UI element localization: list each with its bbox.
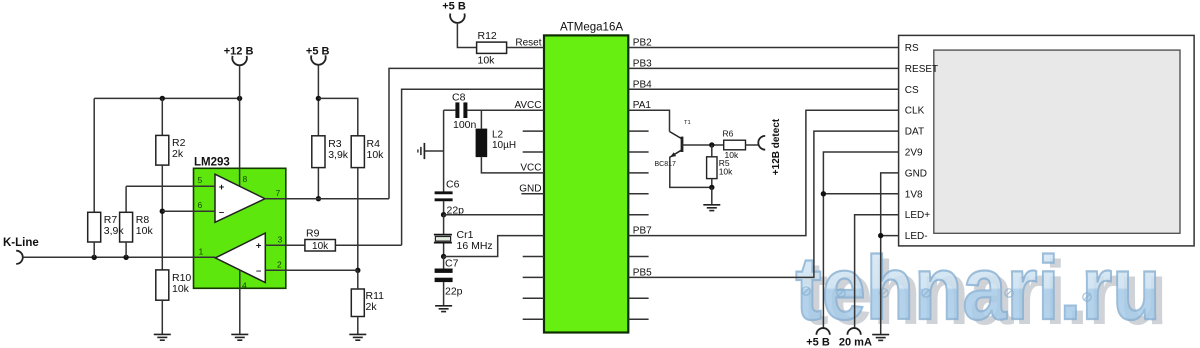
svg-text:+5 В: +5 В bbox=[442, 1, 466, 13]
stub right row193 bbox=[628, 193, 648, 195]
svg-text:RS: RS bbox=[905, 43, 919, 54]
svg-text:–: – bbox=[256, 266, 261, 277]
svg-text:22p: 22p bbox=[447, 205, 465, 217]
wire PA1 to transistor collector bbox=[628, 110, 669, 131]
wire LED- branch bbox=[881, 235, 899, 237]
wire 1V8 branch bbox=[823, 193, 898, 195]
resistor R3 bbox=[312, 136, 325, 168]
stub left row319 bbox=[523, 318, 544, 320]
wire base node to R6 bbox=[682, 144, 724, 146]
svg-text:GND: GND bbox=[519, 184, 541, 195]
wire PB3 to RESET bbox=[628, 67, 898, 69]
wire XTAL1 node to crystal bbox=[443, 215, 445, 234]
svg-text:1V8: 1V8 bbox=[905, 189, 923, 200]
stub GND bbox=[521, 193, 544, 195]
svg-text:22p: 22p bbox=[445, 286, 463, 298]
svg-text:R9: R9 bbox=[306, 228, 320, 240]
display module LCD1 bbox=[899, 35, 1195, 246]
wire C7 to ground bbox=[443, 282, 445, 306]
ground under transistor bbox=[703, 205, 720, 211]
svg-text:3: 3 bbox=[278, 235, 283, 245]
resistor R11 bbox=[351, 289, 364, 317]
labels right section bbox=[633, 38, 938, 348]
wire PB4 to CS bbox=[628, 88, 898, 90]
svg-text:LED+: LED+ bbox=[905, 210, 930, 221]
node R4/R11/pin2 bbox=[355, 268, 360, 273]
svg-text:R12: R12 bbox=[478, 30, 497, 42]
svg-text:10k: 10k bbox=[367, 149, 385, 161]
svg-text:2k: 2k bbox=[172, 148, 184, 160]
svg-text:LED-: LED- bbox=[905, 231, 928, 242]
resistor R2 bbox=[156, 135, 169, 165]
wire pin 7 output to riser bbox=[265, 198, 389, 200]
svg-text:10k: 10k bbox=[312, 241, 329, 252]
wire pin 2 input bbox=[265, 269, 358, 271]
svg-text:2k: 2k bbox=[366, 301, 378, 313]
ATmega16A box U2 bbox=[544, 35, 628, 332]
svg-text:3,9k: 3,9k bbox=[104, 225, 125, 237]
wire R11 top lead bbox=[357, 270, 359, 289]
wire R5 bottom lead bbox=[711, 179, 713, 188]
svg-text:6: 6 bbox=[198, 200, 203, 210]
svg-text:10µH: 10µH bbox=[492, 140, 516, 151]
stub right row152 bbox=[628, 151, 648, 153]
wire +5V to R12 bbox=[457, 24, 476, 48]
wire C8 to AVCC pin bbox=[467, 109, 544, 111]
wire C6 to XTAL1 node bbox=[443, 201, 445, 215]
node +5V/R3/R4 bbox=[316, 96, 321, 101]
capacitor C8 bbox=[455, 102, 467, 118]
wire pin 5 input bbox=[126, 185, 215, 187]
svg-text:L2: L2 bbox=[492, 130, 504, 141]
inductor L2 bbox=[476, 129, 488, 158]
crystal Cr1 bbox=[434, 235, 452, 243]
wire GND to ground bottom bbox=[881, 173, 899, 335]
wire pin 6 input bbox=[162, 210, 215, 212]
wire PB5 to DAT bbox=[628, 131, 898, 277]
wire PB7 to CLK bbox=[628, 110, 898, 235]
wire R9 riser to ATmega bbox=[402, 89, 544, 245]
svg-text:R6: R6 bbox=[723, 129, 734, 139]
MIDDLE SECTION bbox=[418, 14, 544, 312]
wire R5 top lead bbox=[711, 145, 713, 157]
node rail/+12V bbox=[237, 96, 242, 101]
stub left row152 bbox=[523, 151, 544, 153]
resistor R6 bbox=[724, 140, 746, 150]
wire emitter down and right bbox=[670, 157, 712, 188]
wire PB2 to RS bbox=[628, 47, 898, 49]
stub right row172 bbox=[628, 172, 648, 174]
svg-text:3,9k: 3,9k bbox=[328, 149, 349, 161]
LCD screen area bbox=[934, 50, 1180, 233]
labels left section bbox=[3, 46, 384, 314]
svg-text:T1: T1 bbox=[684, 120, 691, 126]
svg-text:+5 В: +5 В bbox=[806, 337, 830, 348]
svg-text:1: 1 bbox=[199, 247, 204, 257]
wire R2 bottom to pin6 and R10 bbox=[161, 165, 163, 270]
svg-text:CLK: CLK bbox=[905, 106, 925, 117]
LM293 pin numbers and op-amp signs bbox=[198, 174, 283, 291]
svg-text:BC817: BC817 bbox=[655, 161, 677, 168]
node 1V8/+5V bbox=[821, 191, 826, 196]
wire R9 to riser bbox=[335, 244, 401, 246]
wire +5V branch to R4 bbox=[318, 98, 357, 135]
node pin6/R2/R10 bbox=[160, 209, 165, 214]
transistor Q1 base bar bbox=[681, 137, 684, 152]
wire crystal to XTAL2 node bbox=[443, 243, 445, 256]
resistor R5 bbox=[707, 157, 717, 179]
stub right row214 bbox=[628, 214, 648, 216]
svg-text:Reset: Reset bbox=[515, 38, 541, 49]
resistor R10 bbox=[156, 270, 169, 300]
svg-text:RESET: RESET bbox=[905, 64, 938, 75]
svg-text:PB7: PB7 bbox=[633, 226, 652, 237]
RIGHT SECTION wires bbox=[628, 48, 898, 341]
wire branch to side ground bbox=[424, 150, 443, 152]
transistor Q1 emitter diagonal bbox=[670, 150, 681, 157]
svg-text:+: + bbox=[219, 182, 225, 193]
labels middle section bbox=[442, 1, 541, 298]
wire pin 4 to ground bbox=[239, 270, 241, 335]
stub left row277 bbox=[523, 276, 544, 278]
svg-text:K-Line: K-Line bbox=[3, 237, 39, 249]
svg-text:100n: 100n bbox=[453, 119, 477, 131]
ground under C7 bbox=[435, 306, 452, 312]
resistor R9 bbox=[305, 240, 336, 252]
connector K-Line bbox=[16, 251, 23, 264]
stub right row298 bbox=[628, 297, 648, 299]
capacitor C6 bbox=[435, 193, 453, 200]
wire ground chain below C8 bbox=[443, 110, 445, 191]
svg-text:VCC: VCC bbox=[520, 163, 541, 174]
connector +12B detect bbox=[758, 136, 765, 150]
svg-text:2V9: 2V9 bbox=[905, 148, 923, 159]
wire pin 3 to R9 bbox=[265, 244, 305, 246]
transistor Q1 emitter arrow bbox=[670, 152, 676, 157]
ground under pin 4 bbox=[231, 334, 248, 340]
stub right row131 bbox=[628, 130, 648, 132]
connector +12 V bbox=[232, 56, 247, 65]
node rail/R2 bbox=[160, 96, 165, 101]
stub left row256 bbox=[523, 256, 544, 258]
svg-text:PB5: PB5 bbox=[633, 267, 652, 278]
svg-text:10k: 10k bbox=[136, 225, 154, 237]
wire R10 bottom lead bbox=[161, 300, 163, 334]
resistor R8 bbox=[120, 212, 133, 242]
svg-text:C8: C8 bbox=[452, 92, 466, 104]
node R3/pin7 bbox=[316, 196, 321, 201]
svg-text:5: 5 bbox=[198, 175, 203, 185]
wire R8 bottom lead bbox=[125, 242, 127, 257]
svg-text:C7: C7 bbox=[445, 258, 459, 270]
ground under R11 bbox=[349, 334, 366, 340]
watermark tehnari.ru bbox=[795, 237, 1167, 343]
op-amp U1B triangle bbox=[215, 233, 265, 283]
svg-text:C6: C6 bbox=[446, 179, 460, 191]
watermark circled marks bbox=[802, 287, 1091, 301]
svg-text:PB2: PB2 bbox=[633, 38, 652, 49]
svg-text:AVCC: AVCC bbox=[514, 100, 541, 111]
resistor R4 bbox=[351, 136, 364, 168]
resistor R7 bbox=[88, 212, 101, 242]
svg-text:CS: CS bbox=[905, 85, 919, 96]
wire XTAL1 to ATmega bbox=[444, 214, 544, 216]
wire R2 top lead bbox=[161, 98, 163, 135]
ground bottom right bbox=[872, 335, 889, 341]
wire LED+ to 20mA bbox=[855, 215, 899, 328]
wire 2V9 to +5V bottom bbox=[823, 152, 898, 328]
wire R4 bottom to pin2 wire bbox=[357, 168, 359, 271]
ATmega pin stubs bbox=[521, 131, 648, 319]
stub right row319 bbox=[628, 318, 648, 320]
node K-Line/R8 bbox=[123, 255, 128, 260]
wire AVCC left segment bbox=[444, 109, 456, 111]
node base/R5/R6 bbox=[709, 142, 714, 147]
svg-text:+5 В: +5 В bbox=[306, 46, 330, 58]
svg-text:+12B detect: +12B detect bbox=[771, 118, 782, 175]
connector +5 V bottom bbox=[816, 328, 829, 335]
stub left row298 bbox=[523, 297, 544, 299]
connector +5 V top middle bbox=[450, 14, 465, 23]
svg-text:LM293: LM293 bbox=[194, 157, 230, 169]
wire +5V down to R3 bbox=[317, 66, 319, 136]
node K-Line/R7 bbox=[92, 255, 97, 260]
resistor R12 bbox=[477, 42, 507, 53]
wire L2 to VCC pin bbox=[481, 157, 544, 173]
wire L2 top lead bbox=[480, 110, 482, 128]
svg-text:PB4: PB4 bbox=[633, 79, 652, 90]
svg-text:10k: 10k bbox=[478, 55, 496, 67]
node emitter/R5 bbox=[709, 185, 714, 190]
svg-text:10k: 10k bbox=[172, 283, 190, 295]
node XTAL1 bbox=[441, 212, 446, 217]
wire R6 to connector bbox=[746, 144, 759, 146]
node XTAL2 bbox=[441, 254, 446, 259]
svg-text:GND: GND bbox=[905, 168, 927, 179]
wire to transistor ground bbox=[711, 187, 713, 204]
svg-text:16 MHz: 16 MHz bbox=[457, 240, 493, 252]
svg-text:7: 7 bbox=[276, 188, 281, 198]
node LED-/GND bbox=[878, 233, 883, 238]
ground sideways near C8 bbox=[418, 143, 425, 159]
svg-text:PB3: PB3 bbox=[633, 58, 652, 69]
svg-text:–: – bbox=[219, 207, 224, 218]
stub right row256 bbox=[628, 256, 648, 258]
connector 20 mA bbox=[847, 328, 860, 335]
svg-text:tehnari.ru: tehnari.ru bbox=[795, 237, 1160, 338]
ground under R10 bbox=[154, 334, 171, 340]
wire R3 bottom to pin7 wire bbox=[317, 168, 319, 199]
wire K-Line to op-amp pin 1 bbox=[23, 256, 216, 258]
wire R12 to Reset pin bbox=[507, 47, 544, 49]
wire R11 bottom lead bbox=[357, 317, 359, 335]
op-amp U1A triangle bbox=[215, 174, 265, 222]
svg-text:ATMega16A: ATMega16A bbox=[560, 22, 623, 34]
svg-text:+: + bbox=[256, 241, 262, 252]
svg-text:8: 8 bbox=[243, 174, 248, 184]
svg-text:4: 4 bbox=[242, 281, 247, 291]
capacitor C7 bbox=[435, 269, 453, 283]
connector +5 V left bbox=[311, 55, 326, 64]
svg-text:DAT: DAT bbox=[905, 127, 924, 138]
wire R7 bottom lead bbox=[93, 242, 95, 257]
wire +12V rail top left bbox=[94, 97, 239, 99]
LM293 box U1 bbox=[194, 168, 286, 288]
svg-text:10k: 10k bbox=[719, 167, 733, 177]
stub left row131 bbox=[523, 130, 544, 132]
wire R8 top lead bbox=[125, 186, 127, 212]
svg-text:20 mA: 20 mA bbox=[839, 337, 872, 348]
wire R7 top lead bbox=[93, 98, 95, 212]
wire XTAL2 node to C7 bbox=[443, 257, 445, 269]
transistor Q1 collector diagonal bbox=[670, 132, 682, 139]
svg-text:PA1: PA1 bbox=[633, 100, 652, 111]
wire pin7 riser to ATmega bbox=[389, 68, 544, 198]
svg-text:2: 2 bbox=[277, 260, 282, 270]
wire XTAL2 to ATmega stepped bbox=[444, 236, 544, 257]
svg-text:+12 В: +12 В bbox=[224, 46, 254, 58]
wire +12V down to op-amp pin 8 bbox=[239, 66, 241, 186]
